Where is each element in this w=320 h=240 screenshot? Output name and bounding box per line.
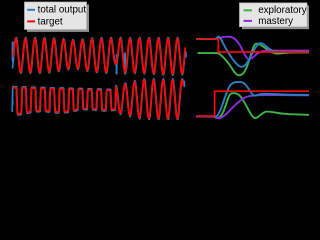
svg-text:mastery: mastery xyxy=(258,16,293,27)
top-right plot: red target step xyxy=(196,39,309,52)
legend top-right xyxy=(242,5,310,29)
bottom-right plot: red target step xyxy=(196,91,309,116)
bottom-right plot: purple mastery curve xyxy=(196,95,309,118)
top-left plot: red target waveform xyxy=(13,38,185,74)
bottom-left plot: blue total-output waveform xyxy=(12,79,183,120)
top-right plot: blue total-output curve xyxy=(196,37,309,67)
bottom-left plot: red target waveform xyxy=(13,80,183,118)
legend top-left xyxy=(27,5,89,32)
svg-text:total output: total output xyxy=(38,5,87,16)
top-left plot: blue transient strokes xyxy=(12,42,15,62)
bottom-right plot: blue total-output curve xyxy=(196,82,309,117)
bottom-left plot: blue transient strokes xyxy=(12,100,14,105)
top-right plot: green exploratory curve xyxy=(198,44,310,76)
top-left plot: blue total-output waveform xyxy=(13,38,186,76)
svg-text:exploratory: exploratory xyxy=(258,5,307,16)
bottom-right plot: green exploratory curve xyxy=(196,93,309,118)
svg-text:target: target xyxy=(38,16,63,27)
top-right plot: purple mastery curve xyxy=(196,37,309,59)
